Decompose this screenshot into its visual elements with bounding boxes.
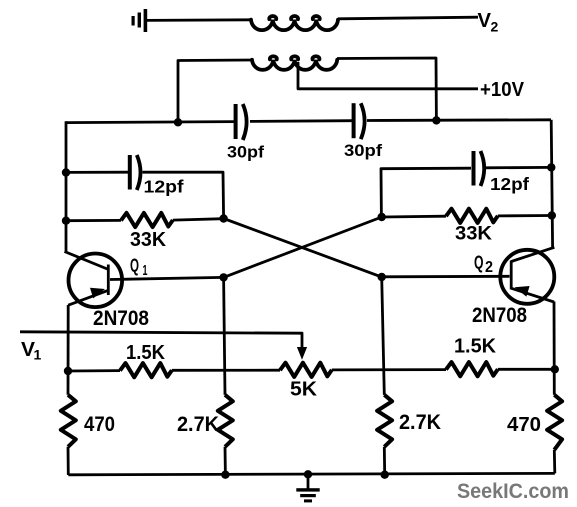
svg-text:2: 2: [491, 19, 499, 35]
wire node D down to R8: [382, 277, 385, 395]
node B junction (Q1 base): [219, 273, 227, 281]
wire R8 to bottom rail: [383, 447, 386, 475]
transistor Q2 2N708: [500, 247, 554, 303]
resistor R7 1.5K: [446, 362, 498, 376]
svg-text:1: 1: [143, 262, 148, 279]
node A junction (C3/R1/cross-couple): [219, 214, 227, 222]
junction bottom rail / ground: [304, 470, 312, 478]
svg-text:30pf: 30pf: [344, 141, 382, 160]
junction left rail / R1 branch: [62, 217, 70, 225]
wire top bus (collector supply rail): [66, 120, 551, 123]
svg-text:1.5K: 1.5K: [126, 341, 165, 364]
wire R1 to node A: [173, 219, 224, 220]
wire R4 to bottom rail: [224, 447, 227, 475]
junction emitter rail / R5 row: [64, 367, 72, 375]
svg-text:V: V: [478, 9, 492, 32]
svg-text:2: 2: [485, 259, 493, 276]
wire cross-couple node C to Q1 base: [224, 217, 382, 277]
junction left rail / C3 branch: [62, 168, 70, 176]
wire R7 to right emitter rail: [498, 368, 555, 371]
resistor R2 33K: [446, 209, 498, 223]
wire C4 branch with corner from node C: [381, 168, 471, 217]
capacitor C4 12pf: [474, 151, 485, 186]
wire Q2 emitter down: [553, 302, 556, 395]
wire C4 to right rail: [486, 166, 551, 169]
node C junction (C4/R2/cross-couple): [378, 213, 386, 221]
wire R1 row: [66, 219, 121, 222]
transistor Q1 2N708: [65, 252, 123, 308]
ground GND (bottom center): [296, 474, 319, 502]
svg-text:Q: Q: [474, 253, 484, 273]
svg-text:+10V: +10V: [480, 79, 525, 101]
wire emitter row left segment: [68, 369, 120, 372]
wire R5 to R6: [172, 369, 280, 372]
svg-text:12pf: 12pf: [144, 177, 184, 197]
resistor R8 2.7K: [377, 395, 392, 447]
junction right rail / R2: [548, 211, 556, 219]
wire R2 to right rail: [498, 214, 552, 217]
inductor L2 (tank coil): [252, 56, 337, 70]
svg-text:Q: Q: [130, 255, 139, 276]
wire node B down to R4: [224, 277, 225, 394]
wire Q1 emitter down: [67, 305, 70, 395]
svg-text:30pf: 30pf: [227, 143, 264, 162]
wire C3 branch left: [66, 171, 128, 174]
svg-text:1.5K: 1.5K: [454, 336, 497, 358]
svg-text:33K: 33K: [130, 228, 166, 251]
capacitor C1 30pf: [236, 104, 247, 140]
junction bus/L2-right: [432, 116, 440, 124]
capacitor C2 30pf: [354, 103, 365, 139]
wire bottom rail: [68, 473, 555, 474]
svg-text:12pf: 12pf: [490, 174, 529, 194]
svg-text:SeekIC.com: SeekIC.com: [457, 480, 569, 503]
resistor R9 470: [547, 395, 562, 450]
wire R3 to bottom rail: [67, 447, 70, 475]
resistor R4 2.7K: [218, 395, 233, 447]
svg-text:2N708: 2N708: [472, 304, 527, 327]
arrow V1 wiper onto R6: [297, 347, 307, 360]
resistor R5 1.5K: [120, 363, 172, 377]
junction bottom rail / R4: [221, 471, 229, 479]
wire right rail upper: [551, 120, 552, 248]
svg-text:470: 470: [84, 413, 115, 436]
wire L2 left end down to bus: [178, 60, 252, 123]
wire L2 right end down to bus: [337, 58, 436, 120]
resistor R3 470: [61, 395, 76, 447]
resistor R1 33K: [121, 213, 173, 227]
inductor L1 (top coil): [251, 16, 338, 30]
wire L1 to V2 terminal: [338, 17, 478, 19]
wire R6 to R7: [332, 368, 446, 371]
potentiometer R6 5K: [280, 363, 332, 377]
svg-text:2.7K: 2.7K: [399, 411, 441, 434]
junction right rail / C4: [547, 163, 555, 171]
svg-text:2.7K: 2.7K: [177, 413, 219, 436]
node D junction (Q2 base): [378, 273, 386, 281]
junction right rail / R7 row: [551, 365, 559, 373]
wire ground to L1: [147, 18, 252, 21]
wire left rail (Q1 collector branch): [65, 121, 68, 252]
wire L2 center tap to +10V: [298, 62, 478, 89]
junction bottom rail / R8: [381, 471, 389, 479]
svg-text:33K: 33K: [455, 224, 492, 245]
ground G1 (top left, V2 return): [132, 9, 148, 32]
wire Q1 base to node B: [110, 277, 224, 279]
junction bus/L2-left: [174, 118, 182, 126]
svg-text:2N708: 2N708: [93, 307, 149, 330]
svg-text:5K: 5K: [290, 378, 317, 401]
wire Q2 base to node D: [382, 275, 510, 278]
capacitor C3 12pf: [130, 155, 141, 190]
wire V1 input line: [20, 332, 302, 349]
wire C3 to corner into node A: [143, 172, 224, 218]
svg-text:1: 1: [34, 347, 42, 363]
wire R2 row from node C: [382, 215, 446, 219]
wire cross-couple node A to Q2 base: [224, 219, 382, 278]
wire R9 to bottom rail corner: [553, 450, 556, 474]
svg-text:470: 470: [507, 414, 541, 436]
